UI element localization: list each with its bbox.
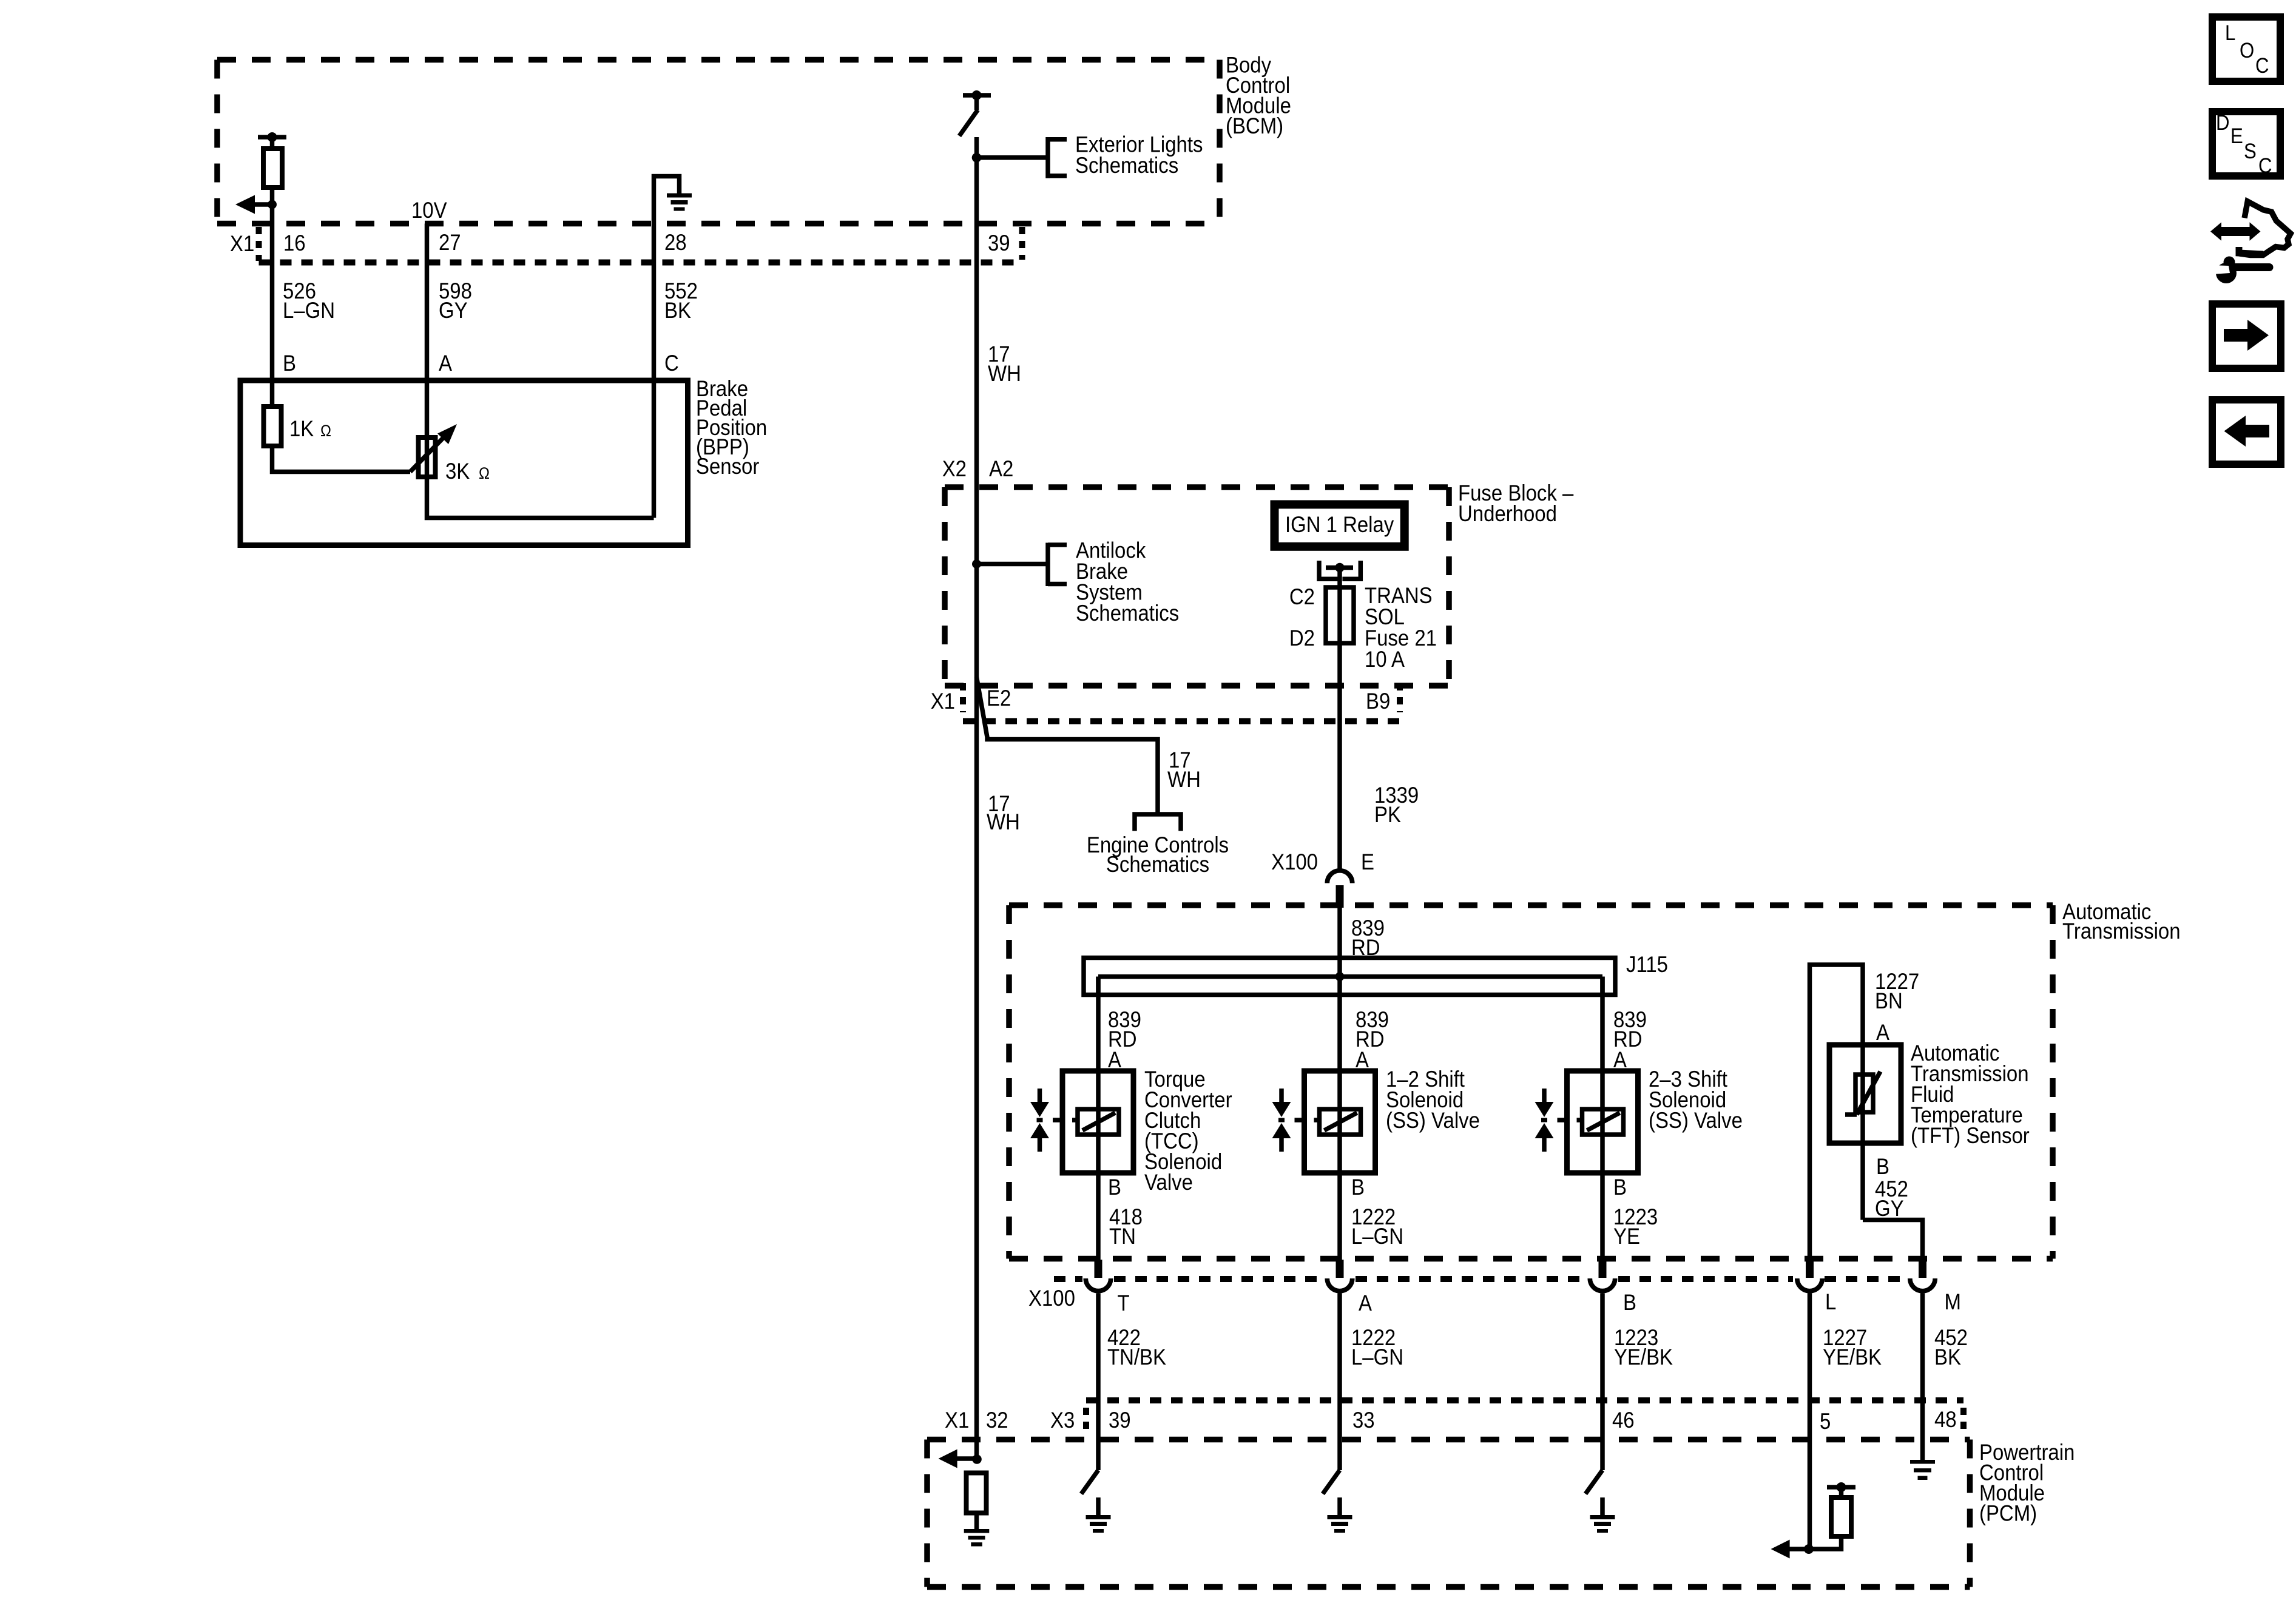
LOC icon box	[2212, 17, 2280, 81]
wire 839 RD A labels (TCC)	[1108, 1007, 1141, 1072]
2-3 check valve symbol	[1542, 1089, 1547, 1103]
X100 pin M socket arc	[1910, 1278, 1935, 1291]
TCC solenoid valve box	[1062, 1071, 1133, 1173]
wire 17 WH main run (pin 39 down to PCM pin 32)	[974, 137, 979, 1459]
svg-text:BK: BK	[664, 298, 691, 323]
svg-text:BN: BN	[1875, 988, 1903, 1013]
svg-text:M: M	[1945, 1289, 1961, 1314]
svg-text:46: 46	[1612, 1408, 1635, 1433]
wire 839 RD drop to 2-3 solenoid	[1600, 977, 1605, 1072]
wire resistor to splice bar	[1839, 1487, 1844, 1497]
splice J115 bus bar	[1084, 958, 1615, 995]
wire 452 GY jog to M pin	[1863, 1220, 1923, 1260]
wire to Exterior Lights bracket	[977, 155, 1048, 160]
svg-text:B: B	[283, 351, 296, 376]
wire 1K resistor to wiper	[272, 446, 411, 472]
IGN 1 Relay box	[1275, 504, 1405, 546]
wire 17 WH label (main run)	[987, 791, 1020, 834]
1-2 coil	[1320, 1109, 1361, 1135]
ground symbol (PCM pin 46)	[1590, 1515, 1615, 1533]
TCC wire through box	[1096, 1071, 1101, 1260]
svg-text:Transmission: Transmission	[2062, 919, 2181, 944]
svg-text:X100: X100	[1271, 849, 1318, 874]
Fuse Block - Underhood dashed box	[945, 487, 1449, 686]
svg-text:3K: 3K	[445, 459, 470, 484]
wire 17 WH label (pin 39)	[988, 342, 1021, 386]
1-2 shift solenoid valve box	[1305, 1071, 1376, 1173]
splice bar with junction dot (top of BCM resistor)	[258, 135, 286, 140]
2-3 shift solenoid valve box	[1567, 1071, 1638, 1173]
svg-text:WH: WH	[1167, 767, 1201, 792]
off-page bracket Engine Controls	[1135, 814, 1181, 831]
connector X2 pin A2 labels	[942, 456, 1014, 481]
svg-text:39: 39	[1109, 1408, 1131, 1433]
X100 pin L socket arc	[1797, 1278, 1822, 1291]
forward arrow icon box	[2212, 304, 2281, 368]
back arrow icon box	[2212, 400, 2281, 464]
X100 pin L blade	[1806, 1260, 1814, 1278]
svg-text:D2: D2	[1289, 626, 1315, 650]
connector X1 dashed line	[259, 260, 1022, 266]
svg-text:GY: GY	[439, 298, 468, 323]
svg-text:L–GN: L–GN	[283, 298, 335, 323]
X100 pin B socket arc	[1590, 1278, 1615, 1291]
resistor inside BCM (pin 16 pull-up)	[263, 149, 282, 187]
connector X3 right tick	[1960, 1408, 1967, 1434]
DESC icon box	[2212, 112, 2280, 176]
wire 839 RD label (E to J115)	[1351, 916, 1385, 960]
ground symbol (PCM pin 48)	[1910, 1460, 1935, 1480]
TFT thermistor	[1855, 1075, 1873, 1112]
PCM pin 5 arrow to other circuits	[1788, 1547, 1809, 1551]
svg-text:Schematics: Schematics	[1106, 852, 1209, 877]
relay output pin bar with junction dot	[1326, 565, 1353, 570]
svg-text:C: C	[2255, 54, 2269, 78]
wire 839 RD A labels (2-3 shift)	[1613, 1007, 1647, 1072]
svg-text:39: 39	[988, 231, 1010, 255]
wire 839 RD drop to TCC solenoid	[1096, 977, 1101, 1072]
wire 1222 L-GN label	[1351, 1204, 1403, 1249]
svg-text:A: A	[1359, 1291, 1373, 1315]
svg-text:E: E	[2230, 124, 2243, 148]
svg-text:B: B	[1613, 1175, 1627, 1200]
svg-text:X100: X100	[1028, 1286, 1075, 1311]
svg-text:L: L	[2225, 21, 2235, 45]
Fuse Block label	[1458, 481, 1574, 526]
svg-text:X3: X3	[1050, 1408, 1075, 1433]
svg-text:C: C	[664, 351, 679, 376]
connector X1 (fuse block) dashed line	[963, 718, 1400, 724]
wire resistor to ground	[974, 1513, 979, 1530]
svg-text:C2: C2	[1289, 584, 1315, 609]
ground symbol (PCM pin 32)	[964, 1529, 990, 1547]
svg-text:A2: A2	[989, 456, 1013, 481]
svg-text:YE: YE	[1613, 1224, 1640, 1249]
off-page bracket Antilock Brake System	[1045, 543, 1050, 587]
svg-text:28: 28	[664, 230, 687, 255]
diagnostic icon: wrench	[2216, 263, 2237, 283]
connector X1/X3 labels (PCM)	[945, 1407, 1957, 1434]
PCM pin 33 driver switch	[1323, 1470, 1340, 1494]
svg-text:B: B	[1876, 1154, 1889, 1179]
X100 pin A socket arc	[1327, 1278, 1352, 1291]
svg-text:YE/BK: YE/BK	[1823, 1345, 1882, 1369]
connector X100 pin E socket arc	[1327, 871, 1352, 883]
connector X100 pin E labels	[1271, 849, 1374, 874]
wire to ABS bracket	[977, 562, 1048, 567]
svg-text:L–GN: L–GN	[1351, 1224, 1403, 1249]
junction dot on pin 16 wire	[268, 200, 277, 209]
arrow to other BCM circuits	[252, 202, 272, 207]
X100 pin A blade	[1336, 1260, 1344, 1278]
wire pot bottom to C leg	[427, 477, 654, 518]
svg-text:X1: X1	[230, 231, 254, 256]
svg-text:S: S	[2244, 140, 2257, 163]
1-2 shift label	[1386, 1067, 1480, 1133]
wire 1223 YE label	[1613, 1204, 1658, 1249]
wire 552 BK (pin 28 to BPP C)	[652, 224, 657, 518]
svg-text:B: B	[1623, 1290, 1636, 1315]
PCM pin 46 driver switch	[1585, 1470, 1602, 1494]
fuse TRANS SOL Fuse 21 10A	[1326, 587, 1354, 643]
resistor 1K inside BPP	[264, 407, 282, 446]
svg-text:5: 5	[1820, 1409, 1831, 1434]
PCM label	[1979, 1440, 2075, 1526]
svg-text:16: 16	[283, 231, 306, 255]
off-page bracket Exterior Lights	[1045, 137, 1050, 178]
svg-text:A: A	[1876, 1020, 1890, 1045]
wire 452 BK (M to PCM 48)	[1920, 1294, 1925, 1460]
potentiometer 3K wiper arrow	[410, 434, 447, 472]
svg-text:Ω: Ω	[320, 422, 331, 441]
PCM pin 32 junction dot	[972, 1454, 982, 1464]
relay output clip brackets	[1319, 561, 1338, 579]
junction dot at J115	[1335, 972, 1345, 981]
X100 pin T blade	[1095, 1260, 1102, 1278]
2-3 coil stubs	[1558, 1118, 1568, 1122]
svg-text:X1: X1	[945, 1408, 969, 1433]
svg-text:33: 33	[1352, 1408, 1375, 1433]
svg-text:L: L	[1825, 1289, 1836, 1314]
Automatic Transmission dashed box	[1009, 905, 2053, 1259]
svg-text:IGN 1 Relay: IGN 1 Relay	[1285, 512, 1394, 537]
junction dot to ABS branch	[972, 559, 981, 569]
potentiometer 3K body	[419, 437, 436, 477]
Brake Pedal Position (BPP) Sensor box	[240, 380, 688, 545]
svg-text:PK: PK	[1374, 802, 1401, 827]
connector X3 dashed line	[1086, 1397, 1963, 1403]
wire 17 WH branch to Engine Controls	[977, 677, 1158, 814]
svg-text:Schematics: Schematics	[1076, 601, 1179, 626]
TFT sensor box	[1829, 1045, 1901, 1143]
svg-text:X1: X1	[931, 689, 955, 714]
2-3 shift label	[1649, 1067, 1743, 1133]
connector X3 left tick	[1083, 1408, 1089, 1434]
svg-text:(SS) Valve: (SS) Valve	[1649, 1108, 1743, 1133]
svg-text:X2: X2	[942, 456, 967, 481]
svg-text:(TFT) Sensor: (TFT) Sensor	[1911, 1123, 2030, 1148]
svg-text:YE/BK: YE/BK	[1614, 1345, 1673, 1369]
svg-text:C: C	[2258, 154, 2272, 178]
wire junction to pull-up resistor	[1809, 1536, 1842, 1549]
1-2 check valve symbol	[1279, 1089, 1284, 1103]
junction dot to Exterior Lights branch	[972, 153, 982, 163]
wire 1339 PK upper (relay to fuse to X100 E)	[1337, 567, 1342, 869]
X100 pin M blade	[1919, 1260, 1926, 1278]
ground symbol (PCM pin 39)	[1086, 1515, 1111, 1533]
TCC coil stubs	[1053, 1118, 1064, 1122]
wire resistor to junction	[270, 187, 275, 224]
PCM pin 32 resistor	[967, 1473, 987, 1513]
connector X1 right tick	[1019, 227, 1025, 260]
solenoid pin B labels	[1108, 1175, 1627, 1200]
X100 pin B blade	[1599, 1260, 1607, 1278]
connector X100 pin E blade	[1336, 885, 1344, 908]
wire 1227 BN label	[1875, 969, 1919, 1013]
wire 418 TN label	[1109, 1204, 1143, 1249]
svg-text:WH: WH	[988, 361, 1021, 386]
svg-text:Sensor: Sensor	[696, 454, 760, 479]
wire 526 L-GN (pin 16 to BPP B)	[270, 224, 275, 407]
switch inside BCM (brake signal, pin 39)	[963, 93, 991, 98]
svg-text:Underhood: Underhood	[1458, 501, 1557, 526]
connector X1 (fuse block) left tick	[960, 683, 966, 712]
connector X100 dashed line (bottom)	[1054, 1276, 1907, 1282]
1-2 wire through box	[1337, 1071, 1342, 1260]
svg-text:TN/BK: TN/BK	[1107, 1345, 1166, 1369]
svg-text:Schematics: Schematics	[1075, 153, 1178, 178]
wire 1222 L-GN (A to PCM 33)	[1337, 1294, 1342, 1471]
ground symbol inside BCM (pin 28)	[654, 177, 680, 224]
svg-text:O: O	[2240, 39, 2254, 62]
svg-text:D: D	[2216, 111, 2229, 135]
Powertrain Control Module (PCM) dashed box	[927, 1440, 1970, 1587]
svg-text:B: B	[1351, 1175, 1365, 1200]
svg-text:T: T	[1118, 1291, 1130, 1315]
svg-text:TN: TN	[1109, 1224, 1136, 1249]
splice bar with junction dot (PCM pin 5)	[1827, 1485, 1855, 1490]
X100 pin T socket arc	[1086, 1278, 1110, 1291]
svg-text:WH: WH	[987, 809, 1020, 834]
svg-text:J115: J115	[1626, 952, 1668, 977]
svg-text:L–GN: L–GN	[1351, 1345, 1403, 1369]
PCM pin 5 resistor	[1831, 1497, 1851, 1536]
svg-text:E: E	[1361, 849, 1374, 874]
diagnostic icon: double arrow	[2210, 222, 2261, 241]
2-3 wire through box	[1600, 1071, 1605, 1260]
svg-text:A: A	[439, 351, 453, 376]
connector X1 (fuse block) labels	[931, 686, 1391, 714]
wire from splice bar to resistor	[270, 137, 275, 150]
wire 598 GY (pin 27 to BPP A)	[425, 224, 430, 478]
TCC coil	[1078, 1109, 1119, 1135]
TFT label	[1911, 1041, 2030, 1148]
wire 1227 YE/BK (L to PCM 5)	[1808, 1294, 1812, 1550]
svg-text:10V: 10V	[411, 198, 447, 223]
wire 839 RD (X100 E to J115 splice)	[1337, 908, 1342, 1071]
wire 839 RD A labels (1-2 shift)	[1356, 1007, 1389, 1072]
Automatic Transmission label	[2062, 899, 2181, 944]
svg-text:32: 32	[986, 1408, 1008, 1433]
wire 422 TN/BK (T to PCM 39)	[1096, 1294, 1101, 1471]
connector X1 left tick	[256, 227, 262, 261]
ground symbol (PCM pin 33)	[1328, 1515, 1352, 1533]
svg-text:GY: GY	[1875, 1196, 1904, 1221]
wire 1339 PK label	[1374, 783, 1419, 827]
PCM pin 39 driver switch	[1081, 1470, 1098, 1494]
svg-text:(SS) Valve: (SS) Valve	[1386, 1108, 1480, 1133]
TFT sensor feed elbow (wire 1227 BN)	[1810, 965, 1863, 1260]
svg-text:1K: 1K	[289, 416, 314, 441]
2-3 coil	[1582, 1109, 1624, 1135]
svg-text:(BCM): (BCM)	[1226, 113, 1283, 138]
svg-text:B: B	[1108, 1175, 1121, 1200]
connector X1 (fuse block) right tick	[1397, 683, 1403, 712]
1-2 coil stubs	[1295, 1118, 1306, 1122]
wire 452 GY label	[1875, 1176, 1908, 1221]
svg-text:48: 48	[1934, 1407, 1957, 1432]
PCM pin 5 junction dot	[1804, 1544, 1814, 1554]
svg-text:E2: E2	[987, 686, 1011, 711]
TFT wire through box	[1860, 1045, 1865, 1220]
PCM pin 32 arrow to other circuits	[956, 1456, 977, 1461]
svg-text:10 A: 10 A	[1365, 647, 1405, 672]
svg-text:Valve: Valve	[1144, 1170, 1193, 1195]
svg-text:BK: BK	[1934, 1345, 1961, 1369]
BCM label	[1226, 53, 1291, 139]
svg-text:27: 27	[439, 230, 461, 255]
wire 1223 YE/BK (B to PCM 46)	[1600, 1294, 1605, 1471]
TCC label	[1144, 1067, 1232, 1195]
svg-text:Ω: Ω	[479, 465, 490, 483]
svg-text:(PCM): (PCM)	[1979, 1501, 2037, 1526]
diagnostic icon: step tab	[2239, 247, 2263, 254]
Body Control Module (BCM) dashed box	[217, 60, 1220, 224]
TCC check valve symbol	[1038, 1089, 1042, 1103]
diagnostic icon: harness outline	[2239, 201, 2291, 255]
svg-text:B9: B9	[1366, 689, 1390, 714]
